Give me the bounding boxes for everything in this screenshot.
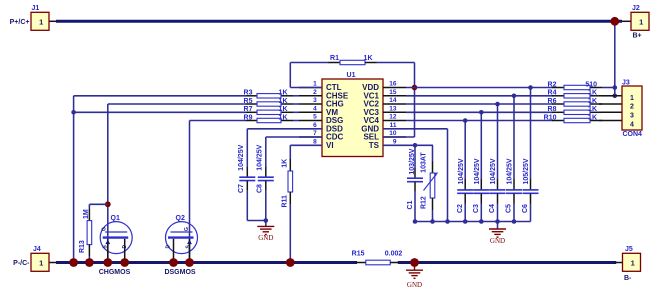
svg-text:6: 6 [313, 122, 317, 129]
svg-text:104/25V: 104/25V [256, 144, 263, 170]
svg-text:R1: R1 [330, 55, 339, 62]
svg-text:1K: 1K [279, 114, 288, 121]
svg-text:C1: C1 [407, 200, 414, 209]
svg-text:16: 16 [389, 81, 397, 88]
svg-text:GND: GND [490, 237, 505, 245]
svg-text:1K: 1K [279, 90, 288, 97]
svg-text:1K: 1K [364, 55, 373, 62]
svg-text:G: G [102, 227, 108, 231]
svg-text:R2: R2 [548, 81, 557, 88]
svg-text:C6: C6 [522, 204, 529, 213]
svg-text:C3: C3 [473, 204, 480, 213]
svg-text:1M: 1M [83, 209, 90, 219]
svg-text:J2: J2 [632, 5, 640, 12]
svg-text:B-: B- [624, 275, 632, 282]
svg-text:11: 11 [390, 122, 397, 129]
svg-text:13: 13 [389, 105, 397, 112]
svg-text:R6: R6 [548, 98, 557, 105]
svg-text:R8: R8 [548, 106, 557, 113]
svg-text:C2: C2 [457, 204, 464, 213]
svg-text:14: 14 [389, 97, 397, 104]
svg-text:3: 3 [630, 113, 634, 120]
svg-text:R4: R4 [548, 90, 557, 97]
svg-text:10: 10 [389, 130, 397, 137]
svg-text:2: 2 [630, 104, 634, 111]
svg-text:103/25V: 103/25V [409, 148, 416, 174]
svg-text:1K: 1K [588, 90, 597, 97]
svg-text:GND: GND [407, 281, 422, 289]
svg-text:9: 9 [393, 138, 397, 145]
svg-text:R15: R15 [352, 250, 365, 257]
svg-text:8: 8 [313, 138, 317, 145]
svg-text:Q2: Q2 [176, 215, 185, 222]
svg-text:D: D [122, 245, 128, 249]
svg-text:104/25V: 104/25V [490, 158, 497, 184]
svg-text:CHGMOS: CHGMOS [99, 269, 131, 276]
svg-text:R11: R11 [281, 195, 288, 208]
svg-text:1: 1 [630, 95, 634, 102]
svg-text:J4: J4 [33, 246, 41, 253]
svg-text:1K: 1K [281, 159, 288, 168]
svg-text:1K: 1K [588, 114, 597, 121]
svg-text:U1: U1 [347, 72, 356, 79]
svg-text:104/25V: 104/25V [474, 158, 481, 184]
svg-text:C8: C8 [256, 184, 263, 193]
svg-text:1K: 1K [279, 106, 288, 113]
svg-text:C5: C5 [506, 204, 513, 213]
svg-text:GND: GND [258, 234, 273, 242]
svg-text:P+/C+: P+/C+ [10, 19, 30, 26]
svg-text:15: 15 [389, 89, 397, 96]
svg-text:1: 1 [39, 259, 43, 268]
svg-text:1: 1 [639, 18, 643, 27]
svg-text:5: 5 [313, 114, 317, 121]
svg-text:2: 2 [313, 89, 317, 96]
svg-text:1K: 1K [279, 98, 288, 105]
svg-text:Q1: Q1 [111, 215, 120, 222]
svg-text:105/25V: 105/25V [523, 158, 530, 184]
svg-text:1: 1 [631, 259, 635, 268]
svg-text:B+: B+ [633, 33, 642, 40]
svg-text:J1: J1 [32, 5, 40, 12]
svg-text:4: 4 [630, 121, 634, 128]
svg-text:J3: J3 [622, 80, 630, 87]
svg-text:C7: C7 [238, 184, 245, 193]
svg-text:C4: C4 [489, 204, 496, 213]
svg-text:R12: R12 [421, 196, 428, 209]
svg-text:4: 4 [313, 105, 317, 112]
svg-text:J5: J5 [625, 246, 633, 253]
svg-text:G: G [184, 227, 190, 231]
svg-text:1K: 1K [588, 106, 597, 113]
svg-text:R10: R10 [544, 114, 557, 121]
svg-text:DSGMOS: DSGMOS [164, 269, 195, 276]
svg-text:3: 3 [313, 97, 317, 104]
svg-text:TS: TS [369, 141, 380, 150]
svg-text:D: D [166, 245, 172, 249]
svg-text:P-/C-: P-/C- [13, 260, 30, 267]
svg-text:104/25V: 104/25V [238, 144, 245, 170]
svg-text:7: 7 [313, 130, 317, 137]
svg-text:1: 1 [313, 81, 317, 88]
svg-text:12: 12 [389, 114, 397, 121]
svg-text:1K: 1K [588, 98, 597, 105]
svg-text:510: 510 [585, 81, 597, 88]
svg-text:0.002: 0.002 [385, 250, 403, 257]
svg-text:104/25V: 104/25V [458, 158, 465, 184]
svg-text:104/25V: 104/25V [507, 158, 514, 184]
svg-text:R13: R13 [79, 240, 86, 253]
svg-text:1: 1 [39, 18, 43, 27]
svg-text:CON4: CON4 [623, 131, 643, 138]
svg-text:VI: VI [326, 141, 334, 150]
svg-text:103AT: 103AT [421, 152, 428, 173]
